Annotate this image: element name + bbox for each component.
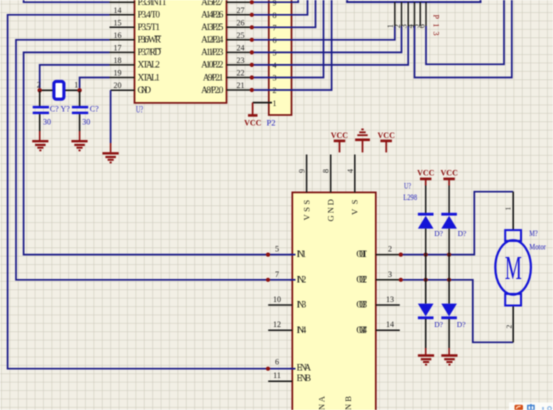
svg-text:30: 30: [82, 118, 90, 127]
svg-text:IN2: IN2: [297, 274, 307, 284]
svg-text:14: 14: [114, 6, 122, 15]
watermark strip bottom right: [509, 403, 553, 410]
wire P2 pin2 up: [252, 0, 332, 90]
ground below left capacitor: [32, 141, 48, 150]
svg-text:16: 16: [114, 31, 122, 40]
wire P2 pin8 up: [252, 0, 308, 15]
svg-text:D?: D?: [434, 229, 443, 238]
svg-text:XTAL1: XTAL1: [138, 72, 161, 82]
svg-text:8: 8: [322, 169, 331, 173]
svg-text:A12/P2.4: A12/P2.4: [201, 35, 224, 45]
motor M? bottom terminal: [505, 294, 521, 306]
svg-text:7: 7: [275, 270, 279, 279]
power VCC at P2 pin1: [248, 103, 258, 116]
svg-text:U?: U?: [136, 104, 143, 114]
wire overhang IN1 into block: [290, 255, 296, 369]
mcu U? left pin names: [138, 0, 168, 95]
svg-text:A14/P2.6: A14/P2.6: [201, 10, 224, 20]
svg-text:15: 15: [114, 18, 122, 27]
junction dots OUT2 row: [399, 278, 452, 282]
wire P2 pin7 up: [252, 0, 316, 27]
L298 bottom pin names IN A IN B (rotated): [317, 395, 353, 410]
svg-text:A13/P2.5: A13/P2.5: [201, 22, 224, 32]
L298 right pin stubs: [376, 255, 400, 331]
connector P13 pin stubs 1..6: [395, 2, 426, 26]
svg-text:P3.4/T0: P3.4/T0: [138, 10, 161, 20]
wire P13 pin4 loop right: [415, 0, 512, 78]
svg-text:D?: D?: [434, 320, 443, 329]
earth ground above GND pin: [355, 129, 370, 152]
svg-text:17: 17: [114, 44, 122, 53]
mcu right pin stubs 28..21: [227, 2, 252, 90]
svg-text:A9/P2.1: A9/P2.1: [203, 72, 224, 82]
wire P2 pin4 to P13 pin3: [252, 26, 408, 65]
svg-text:1: 1: [74, 81, 78, 90]
junction dots OUT1 row: [399, 253, 452, 257]
motor M? top terminal: [505, 230, 521, 241]
svg-text:24: 24: [237, 44, 245, 53]
svg-text:M?: M?: [529, 229, 538, 238]
svg-text:Y?: Y?: [61, 105, 71, 114]
svg-text:IN B: IN B: [343, 396, 353, 410]
svg-text:VCC: VCC: [441, 169, 459, 178]
svg-text:EN B: EN B: [297, 373, 311, 383]
power VCC above diode D2: [441, 169, 459, 214]
wire mcu pin13 P3.3: [24, 0, 110, 2]
wire mcu pin17 P3.7/RD to IN1: [24, 52, 293, 254]
motor M letter: [505, 248, 522, 286]
wire mcu pin18 XTAL2 to crystal node 2: [40, 65, 110, 88]
svg-text:9: 9: [298, 169, 307, 173]
svg-text:27: 27: [237, 6, 245, 15]
svg-text:GND: GND: [138, 85, 152, 95]
L298 top pin stubs 9 8 4: [307, 155, 355, 193]
wire P2 pin9 up: [252, 0, 298, 2]
diode D? down-left: [418, 304, 434, 355]
svg-text:12: 12: [273, 320, 281, 329]
mcu left pin numbers: [114, 6, 122, 90]
connector P13 designator (rotated): [432, 15, 441, 36]
ground below diode D3: [418, 356, 434, 365]
svg-text:U?: U?: [404, 181, 411, 191]
diode D? up-left: [418, 214, 434, 254]
svg-text:2: 2: [505, 325, 514, 329]
wire OUT1 to motor top: [400, 192, 513, 255]
svg-text:IN4: IN4: [297, 325, 307, 335]
diode D? up-right: [441, 214, 457, 254]
motor labels M? Motor: [529, 229, 546, 252]
svg-text:VSS: VSS: [301, 200, 311, 221]
svg-text:VCC: VCC: [378, 131, 396, 140]
wire mcu pin19 XTAL1 to crystal node 1: [80, 78, 110, 89]
svg-text:VCC: VCC: [417, 169, 435, 178]
power VCC above VS: [378, 131, 396, 152]
svg-text:14: 14: [386, 320, 394, 329]
svg-text:1: 1: [504, 207, 513, 211]
svg-text:IN3: IN3: [297, 300, 307, 310]
svg-text:6: 6: [417, 24, 426, 28]
capacitor C? left labels: [43, 105, 70, 127]
wire P2 pin1 to VCC: [253, 102, 272, 104]
L298 left pin numbers: [273, 245, 281, 380]
capacitor C? right: [72, 91, 88, 141]
ground below diode D4: [441, 356, 457, 365]
svg-text:21: 21: [237, 81, 245, 90]
junction dot IN1: [266, 253, 270, 257]
junction dot IN2: [266, 278, 270, 282]
svg-text:GND: GND: [326, 199, 336, 221]
svg-text:OUT4: OUT4: [356, 325, 367, 335]
svg-text:18: 18: [114, 56, 122, 65]
motor M? terminal 1 label (rotated): [504, 207, 513, 211]
wire mcu pin14 P3.4/T0 to EN A: [8, 15, 293, 369]
svg-text:13: 13: [386, 295, 394, 304]
svg-text:M: M: [505, 248, 522, 286]
svg-text:C?: C?: [50, 105, 59, 114]
svg-text:OUT2: OUT2: [356, 274, 367, 284]
connector P13 pin numbers (rotated): [386, 24, 426, 28]
svg-text:30: 30: [43, 118, 51, 127]
L298 top pin numbers (rotated): [298, 169, 355, 173]
motor M? terminal 2 label (rotated): [505, 325, 514, 329]
connector P2 designator: [267, 118, 276, 128]
svg-text:19: 19: [114, 69, 122, 78]
driver U? L298 body: [292, 192, 376, 410]
wire mcu pin16 P3.6/WR to IN2: [16, 40, 293, 280]
svg-text:OUT3: OUT3: [356, 300, 367, 310]
driver U? designator and value: [403, 181, 417, 203]
mcu U? body: [135, 0, 227, 103]
svg-text:10: 10: [273, 295, 281, 304]
motor M? body: [495, 240, 531, 294]
svg-text:EN A: EN A: [297, 363, 312, 373]
connector P13 body (cut at top): [347, 0, 480, 2]
wire OUT2 to motor bottom: [400, 280, 513, 343]
connector P2 pin numbers 9..1: [273, 0, 277, 108]
svg-text:OUT1: OUT1: [356, 249, 367, 259]
L298 left pin stubs: [268, 305, 292, 381]
mcu left pin stubs 13..20: [110, 2, 135, 90]
svg-text:P3.5/T1: P3.5/T1: [138, 22, 161, 32]
wire P2 pin3 up: [252, 0, 324, 78]
svg-text:11: 11: [273, 371, 281, 380]
svg-text:Motor: Motor: [529, 243, 546, 252]
wire P2 pin5 to P13 pin2: [252, 26, 402, 52]
svg-text:6: 6: [275, 357, 279, 366]
svg-text:P3.3/INT1: P3.3/INT1: [138, 0, 167, 7]
svg-text:9: 9: [273, 0, 277, 7]
junction dot EN A: [266, 367, 270, 371]
mcu U? designator: [136, 104, 143, 114]
power VCC above VSS: [331, 131, 349, 152]
crystal Y?: [54, 81, 64, 99]
wire P2 pin6 to P13 pin1: [252, 26, 395, 40]
svg-text:C?: C?: [90, 105, 99, 114]
svg-text:22: 22: [237, 69, 245, 78]
wire diode column links OUT1-OUT2: [426, 255, 449, 304]
svg-text:A8/P2.0: A8/P2.0: [201, 85, 224, 95]
svg-text:5: 5: [275, 245, 279, 254]
svg-text:IN A: IN A: [317, 395, 327, 410]
diode D? down-right: [441, 304, 457, 355]
ground below right capacitor: [71, 141, 87, 150]
junction dot node 2: [38, 88, 42, 92]
junction dots mcu-P2: [250, 0, 254, 92]
svg-text:P13: P13: [432, 15, 441, 36]
svg-text:D?: D?: [458, 229, 467, 238]
svg-text:D?: D?: [457, 320, 466, 329]
svg-text:20: 20: [114, 81, 122, 90]
svg-text:4: 4: [346, 169, 355, 173]
svg-text:VCC: VCC: [244, 119, 262, 128]
svg-text:1: 1: [273, 99, 277, 108]
ground at mcu GND pin: [103, 153, 119, 162]
svg-text:26: 26: [237, 18, 245, 27]
capacitor C? right labels: [82, 105, 99, 127]
L298 right pin numbers: [386, 245, 394, 330]
junction dot node 1: [77, 88, 81, 92]
L298 left pin names: [297, 249, 312, 383]
mcu U? right pin names: [201, 0, 224, 95]
L298 top pin names VSS GND VS (rotated): [301, 199, 359, 221]
svg-text:P2: P2: [267, 118, 276, 128]
svg-text:A15/P2.7: A15/P2.7: [201, 0, 224, 7]
svg-text:A11/P2.3: A11/P2.3: [201, 47, 224, 57]
upper diode labels D? D?: [434, 229, 467, 238]
connector P2 body: [269, 0, 292, 115]
svg-text:25: 25: [237, 31, 245, 40]
wire mcu pin20 GND down: [110, 90, 112, 152]
svg-text:3: 3: [388, 270, 392, 279]
mcu right pin numbers: [237, 6, 245, 90]
svg-text:IN1: IN1: [297, 249, 307, 259]
svg-text:A10/P2.2: A10/P2.2: [201, 60, 224, 70]
svg-text:XTAL2: XTAL2: [138, 60, 161, 70]
wire P13 pin6 loop right: [426, 0, 504, 64]
capacitor C? left: [33, 91, 49, 141]
power VCC above diode D1: [417, 169, 435, 214]
svg-text:23: 23: [237, 56, 245, 65]
L298 right pin names: [356, 249, 367, 335]
svg-text:VCC: VCC: [331, 131, 349, 140]
lower diode labels D? D?: [434, 320, 466, 329]
svg-text:2: 2: [388, 245, 392, 254]
node labels 2 and 1: [37, 81, 78, 90]
wire crystal node row: [40, 89, 80, 91]
svg-text:L298: L298: [403, 192, 417, 202]
